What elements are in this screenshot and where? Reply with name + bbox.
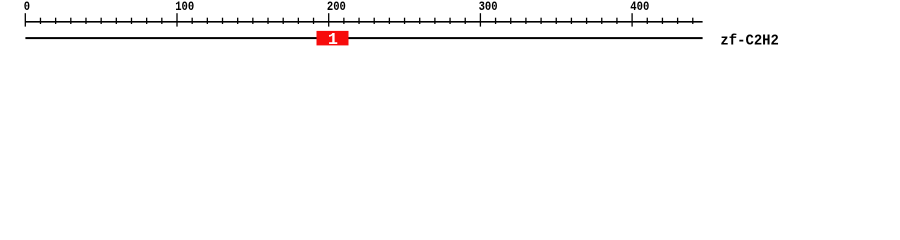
major tick 400 <box>631 13 632 26</box>
domain box 1 (zf-C2H2, red) <box>317 31 349 46</box>
minor ticks (every 10 residues) <box>40 18 694 24</box>
svg-text:300: 300 <box>479 0 498 14</box>
svg-text:400: 400 <box>630 0 649 14</box>
svg-text:1: 1 <box>328 31 338 50</box>
svg-text:zf-C2H2: zf-C2H2 <box>720 33 779 50</box>
sequence line <box>25 37 702 39</box>
major tick 200 <box>328 13 329 26</box>
major tick 300 <box>480 13 481 26</box>
ruler line <box>25 21 702 23</box>
svg-text:200: 200 <box>327 0 346 14</box>
major tick 0 <box>25 13 26 26</box>
svg-text:100: 100 <box>175 0 194 14</box>
svg-text:0: 0 <box>24 0 30 14</box>
major tick 100 <box>176 13 177 26</box>
protein domain ruler diagram <box>0 0 900 58</box>
